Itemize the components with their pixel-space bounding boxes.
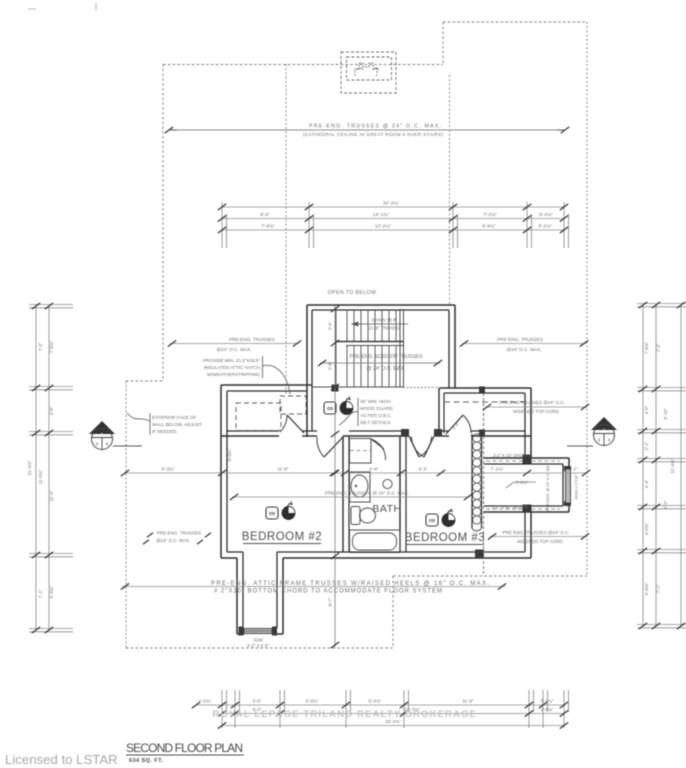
svg-text:PRE-ENG. TRUSSES: PRE-ENG. TRUSSES bbox=[157, 531, 201, 536]
exterior walls bbox=[221, 385, 569, 634]
svg-text:BATH: BATH bbox=[372, 503, 401, 515]
svg-text:3'-8¾": 3'-8¾" bbox=[541, 707, 554, 712]
svg-text:co: co bbox=[429, 518, 435, 524]
label 3-8 leader bbox=[506, 480, 536, 488]
svg-text:SB-7 DETAILS: SB-7 DETAILS bbox=[360, 420, 390, 425]
svg-text:4'-0": 4'-0" bbox=[644, 405, 649, 414]
plan horizontal dimension line bbox=[121, 467, 590, 477]
window bedroom3 bay bbox=[566, 469, 571, 503]
svg-text:IF NEEDED.: IF NEEDED. bbox=[152, 429, 178, 434]
door bedroom2 entry bbox=[317, 437, 343, 457]
right dimension column bbox=[637, 302, 686, 629]
door linen closet bbox=[371, 439, 386, 460]
svg-text:AS PER O.B.C.: AS PER O.B.C. bbox=[360, 413, 392, 418]
svg-text:BEDROOM #3: BEDROOM #3 bbox=[405, 532, 485, 544]
insulated wall with batt symbol bbox=[472, 434, 482, 531]
bottom dimension string bbox=[192, 690, 569, 729]
svg-text:9'-3¾": 9'-3¾" bbox=[162, 467, 175, 472]
svg-text:6'-9¾": 6'-9¾" bbox=[49, 585, 54, 598]
svg-text:5'-4¾": 5'-4¾" bbox=[539, 212, 553, 218]
svg-text:W/WEATHERSTRIPPING: W/WEATHERSTRIPPING bbox=[207, 372, 260, 377]
svg-text:ROYAL LEPAGE TRILAND REALTY BR: ROYAL LEPAGE TRILAND REALTY BROKERAGE bbox=[213, 709, 478, 720]
stair down arrow bbox=[352, 318, 408, 331]
svg-text:634 SQ. FT.: 634 SQ. FT. bbox=[129, 758, 163, 764]
svg-text:4'-4": 4'-4" bbox=[644, 479, 649, 488]
svg-text:36" MIN. HIGH: 36" MIN. HIGH bbox=[360, 399, 390, 404]
svg-text:7'-8¾": 7'-8¾" bbox=[261, 224, 275, 230]
door bedroom2 closet bbox=[280, 415, 304, 433]
svg-text:6'-10": 6'-10" bbox=[663, 408, 668, 420]
svg-text:co: co bbox=[269, 511, 275, 517]
svg-text:2'-8": 2'-8" bbox=[369, 467, 379, 472]
svg-text:7'-3": 7'-3" bbox=[38, 342, 43, 351]
svg-text:8'-2": 8'-2" bbox=[260, 212, 270, 218]
svg-text:6'-9¾": 6'-9¾" bbox=[644, 582, 649, 595]
title second floor plan bbox=[126, 741, 244, 764]
annotation trusses left bbox=[168, 337, 301, 352]
svg-text:# 2"X10" BOTTOM CHORD TO ACCOM: # 2"X10" BOTTOM CHORD TO ACCOMMODATE FLO… bbox=[214, 589, 442, 595]
svg-text:1'-0¾": 1'-0¾" bbox=[199, 699, 212, 704]
window bedroom2 (3248) bbox=[244, 629, 272, 634]
svg-text:@ 24" O.C. MAX.: @ 24" O.C. MAX. bbox=[366, 366, 405, 372]
svg-text:@24" O.C. MAX.: @24" O.C. MAX. bbox=[156, 538, 190, 543]
label bedroom2 bbox=[242, 531, 322, 544]
vertical reference dimension line bbox=[328, 305, 340, 648]
svg-text:7'-8¾": 7'-8¾" bbox=[49, 340, 54, 353]
svg-text:@24" O.C. MAX.: @24" O.C. MAX. bbox=[216, 347, 251, 352]
annotation trusses right bbox=[460, 337, 588, 352]
bedroom3 closet divider dashed bbox=[483, 393, 485, 431]
svg-text:31'-4¾": 31'-4¾" bbox=[670, 458, 675, 473]
svg-text:7'-8¾": 7'-8¾" bbox=[644, 341, 649, 354]
svg-text:PRE-ENG. TRUSSES: PRE-ENG. TRUSSES bbox=[229, 337, 275, 342]
smoke/co detector hall bbox=[324, 397, 353, 415]
annotation wood guard bbox=[339, 398, 393, 426]
svg-text:(CATHEDRAL CEILING IN GREAT RO: (CATHEDRAL CEILING IN GREAT ROOM 4 OVER … bbox=[303, 132, 443, 137]
svg-text:PRE-ENG. ATTIC FRAME TRUSSES W: PRE-ENG. ATTIC FRAME TRUSSES W/RAISED HE… bbox=[211, 581, 489, 587]
roof overhang dashed outline bbox=[126, 22, 587, 648]
svg-text:6'-9¾": 6'-9¾" bbox=[482, 224, 496, 230]
svg-text:EXTERIOR FACE OF: EXTERIOR FACE OF bbox=[152, 415, 197, 420]
reference line dashed x483 bbox=[483, 436, 485, 576]
svg-text:PRE-ENG. TRUSSES: PRE-ENG. TRUSSES bbox=[497, 337, 543, 342]
svg-text:(3.25" TREADS): (3.25" TREADS) bbox=[369, 326, 400, 331]
svg-text:11'-0¾": 11'-0¾" bbox=[38, 469, 43, 484]
closet shelf dashed + attic hatch bbox=[236, 396, 306, 431]
svg-text:3'-8": 3'-8" bbox=[328, 361, 333, 370]
annotation: pre-eng trusses cathedral ceiling bbox=[165, 124, 569, 138]
svg-text:3248: 3248 bbox=[253, 638, 263, 643]
svg-text:2'-2" X 4'-0": 2'-2" X 4'-0" bbox=[247, 643, 269, 648]
svg-text:4'-0": 4'-0" bbox=[49, 406, 54, 415]
svg-text:5'-3": 5'-3" bbox=[663, 500, 668, 509]
annotation widened top cord lower bbox=[488, 530, 589, 544]
svg-text:3'-8": 3'-8" bbox=[252, 699, 262, 704]
annotation widened top cord upper bbox=[483, 400, 589, 414]
top dimension string bbox=[218, 201, 569, 249]
svg-text:13'-2¾": 13'-2¾" bbox=[375, 224, 392, 230]
door bedroom3 entry bbox=[411, 436, 434, 457]
annotation trusses small left bbox=[143, 531, 211, 545]
svg-text:2-2" X 10" SHO'D: 2-2" X 10" SHO'D bbox=[493, 453, 527, 458]
svg-text:INSULATED ATTIC HATCH: INSULATED ATTIC HATCH bbox=[204, 365, 260, 370]
svg-text:33'-2¾": 33'-2¾" bbox=[383, 201, 400, 207]
stairwell walls bbox=[307, 305, 455, 437]
svg-text:PRE-ENG. TRUSSES @24" O.C.: PRE-ENG. TRUSSES @24" O.C. bbox=[502, 530, 569, 535]
svg-text:1'-1": 1'-1" bbox=[568, 467, 578, 472]
svg-text:7'-1": 7'-1" bbox=[656, 584, 661, 593]
label window size bbox=[247, 638, 269, 648]
annotation exterior face bbox=[127, 413, 202, 435]
svg-text:6'-0¾": 6'-0¾" bbox=[306, 699, 319, 704]
svg-text:DOWN 15 R: DOWN 15 R bbox=[372, 318, 396, 323]
svg-text:11'-6": 11'-6" bbox=[462, 699, 474, 704]
svg-text:7'-3": 7'-3" bbox=[656, 343, 661, 352]
toilet bbox=[351, 507, 376, 525]
svg-text:OPEN TO BELOW: OPEN TO BELOW bbox=[328, 290, 377, 296]
svg-text:4'-0¾": 4'-0¾" bbox=[644, 522, 649, 535]
svg-text:PRE-ENG. SCISSOR TRUSSES: PRE-ENG. SCISSOR TRUSSES bbox=[350, 354, 424, 360]
svg-text:PROVIDE MIN. 21.5"X28.5": PROVIDE MIN. 21.5"X28.5" bbox=[203, 358, 261, 363]
bathtub bbox=[350, 530, 401, 553]
wall junction blocks bbox=[239, 385, 572, 636]
svg-text:14'-1¾": 14'-1¾" bbox=[373, 212, 390, 218]
left dimension column bbox=[27, 303, 73, 633]
svg-text:SECOND FLOOR PLAN: SECOND FLOOR PLAN bbox=[126, 741, 243, 755]
door stop symbol bbox=[383, 479, 392, 488]
annotation trusses mid bbox=[230, 491, 472, 501]
annotation attic hatch bbox=[203, 356, 290, 394]
svg-text:WIDENED TOP CORD: WIDENED TOP CORD bbox=[517, 539, 564, 544]
svg-text:Licensed to LSTAR: Licensed to LSTAR bbox=[5, 752, 118, 767]
scan artifact marks bbox=[28, 3, 96, 10]
svg-text:BEDROOM #2: BEDROOM #2 bbox=[242, 531, 322, 543]
svg-text:11'-4": 11'-4" bbox=[49, 490, 54, 501]
bedroom3 closet shelf dashed bbox=[444, 401, 525, 403]
svg-text:5'-4¾": 5'-4¾" bbox=[369, 699, 382, 704]
chimney dashed detail bbox=[341, 52, 396, 93]
label bedroom3 bbox=[405, 532, 485, 545]
svg-text:WALL BELOW, ADJUST: WALL BELOW, ADJUST bbox=[152, 422, 202, 427]
svg-text:co: co bbox=[327, 406, 333, 412]
svg-text:7'-2¾": 7'-2¾" bbox=[483, 212, 497, 218]
svg-text:PRE-ENG. @ 24" O.C. MAX: PRE-ENG. @ 24" O.C. MAX bbox=[546, 463, 550, 511]
annotation attic frame trusses bbox=[121, 581, 506, 595]
svg-text:3'-2¾": 3'-2¾" bbox=[538, 224, 552, 230]
stair treads bbox=[312, 309, 444, 388]
svg-text:7'-1": 7'-1" bbox=[38, 589, 43, 598]
smoke/co detector bedroom2 bbox=[266, 502, 295, 520]
svg-text:7'-1¾": 7'-1¾" bbox=[491, 467, 504, 472]
svg-text:3'-8¾": 3'-8¾" bbox=[516, 480, 529, 485]
section marker left bbox=[89, 421, 142, 450]
svg-text:2-2" X 10" SLOP'D: 2-2" X 10" SLOP'D bbox=[492, 505, 528, 510]
svg-text:11'-6": 11'-6" bbox=[277, 467, 289, 472]
svg-text:WIDENED TOP CORD: WIDENED TOP CORD bbox=[513, 409, 560, 414]
svg-text:3'-2¾": 3'-2¾" bbox=[541, 699, 554, 704]
linen closet bbox=[350, 439, 372, 464]
svg-text:6'-0¾": 6'-0¾" bbox=[227, 448, 232, 461]
svg-text:8'-7": 8'-7" bbox=[328, 597, 333, 606]
svg-text:31'-4¾": 31'-4¾" bbox=[27, 460, 32, 475]
svg-text:40X63 2-2"X10": 40X63 2-2"X10" bbox=[575, 474, 579, 500]
svg-text:3'-4": 3'-4" bbox=[328, 321, 333, 330]
annotation scissor trusses bbox=[318, 354, 442, 372]
door bedroom3 closet bbox=[446, 415, 471, 434]
svg-text:WOOD GUARD: WOOD GUARD bbox=[360, 406, 393, 411]
door bath entry bbox=[409, 436, 432, 457]
section marker right bbox=[567, 417, 617, 446]
svg-text:PRE-ENG. TRUSSES @ 24" O.C. MA: PRE-ENG. TRUSSES @ 24" O.C. MAX. bbox=[309, 124, 441, 130]
bath vanity sink bbox=[350, 472, 371, 502]
svg-text:@24" O.C. MAX.: @24" O.C. MAX. bbox=[506, 347, 541, 352]
interior walls bbox=[221, 388, 531, 552]
svg-text:3'-4": 3'-4" bbox=[418, 467, 428, 472]
smoke/co detector bedroom3 bbox=[426, 509, 455, 527]
svg-text:PRE-ENG TRUSSES @24" O.C.: PRE-ENG TRUSSES @24" O.C. bbox=[499, 400, 565, 405]
svg-text:2'-1": 2'-1" bbox=[644, 441, 649, 450]
svg-text:PRE-ENG. TRUSSES @ 24" O.C. MA: PRE-ENG. TRUSSES @ 24" O.C. MAX. bbox=[325, 491, 409, 496]
